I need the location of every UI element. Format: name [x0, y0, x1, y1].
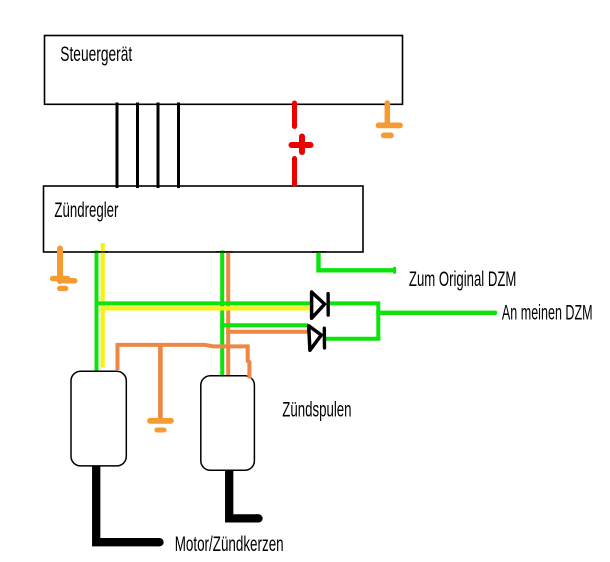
wire thick black coil2 to motor [229, 471, 258, 519]
svg-text:An meinen DZM: An meinen DZM [502, 300, 593, 324]
svg-text:Zum Original DZM: Zum Original DZM [409, 267, 516, 291]
wire green horizontal 2 to diode D2 [220, 323, 308, 327]
wire border redraw left crossing [91, 251, 108, 253]
coil T2 Zündspule 2 [201, 376, 255, 471]
box U1 Steuergerät [45, 36, 403, 105]
wire black bus 3 [157, 103, 160, 189]
arrow tick original DZM [393, 267, 396, 274]
wire red supply lower segment [292, 159, 297, 185]
wire orange from Zündregler to coil2 [226, 252, 230, 376]
coil T1 Zündspule 1 [71, 371, 126, 466]
wire orange branch to diode D2 anode [226, 330, 308, 334]
svg-text:Zündspulen: Zündspulen [282, 397, 351, 421]
wire green output bus vertical [376, 301, 380, 340]
ground GND2 left orange below Zündregler [53, 249, 75, 289]
wire black bus 2 [136, 103, 139, 189]
diode D1 cathode bar [326, 294, 330, 316]
wire tip coil2 [257, 514, 259, 522]
svg-text:Steuergerät: Steuergerät [60, 42, 132, 66]
wire red supply upper segment [292, 103, 297, 127]
wire tip coil1 [158, 538, 160, 546]
wire yellow horizontal to diode D1 [101, 306, 310, 310]
wire tip my DZM [494, 311, 495, 315]
wire orange drop to ground [158, 345, 163, 419]
battery plus symbol [292, 137, 311, 153]
wire orange horizontal link coil1-coil2 [116, 345, 249, 347]
wire orange drop to coil1 [116, 344, 120, 370]
wire border redraw dzm crossing [312, 251, 326, 253]
diode D1 triangle [312, 292, 325, 318]
wire green diode D1 output [329, 301, 379, 305]
wire thick black coil1 to motor [96, 466, 159, 542]
wire yellow vertical from Zündregler to coil1 [101, 243, 105, 368]
diode D2 triangle [309, 326, 322, 351]
wire orange overlap coil2 corner [247, 373, 251, 379]
ground GND3 middle orange [150, 421, 171, 430]
wire green to original DZM [319, 251, 395, 270]
wire green vertical 1 to coil1 [95, 251, 99, 373]
wire border redraw right crossing [216, 251, 233, 253]
wire orange drop to coil2 right [248, 345, 250, 379]
svg-text:Motor/Zündkerzen: Motor/Zündkerzen [175, 532, 284, 556]
wire black bus 4 [177, 103, 180, 189]
wire green horizontal 1 to diode D1 [95, 301, 312, 305]
box U2 Zündregler [44, 186, 364, 252]
wire green diode D2 output [325, 337, 380, 341]
wire green vertical 2 to coil2 [220, 251, 224, 377]
wire green to my DZM [376, 311, 495, 315]
diode D2 cathode bar [323, 328, 327, 348]
ground GND1 top right orange [379, 103, 401, 135]
svg-text:Zündregler: Zündregler [54, 198, 118, 222]
wire black bus 1 [116, 103, 119, 189]
